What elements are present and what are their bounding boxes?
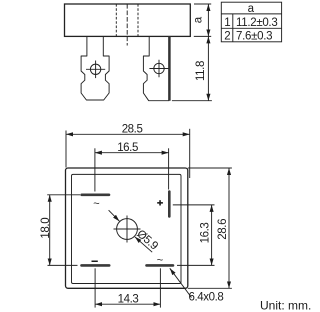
svg-text:14.3: 14.3 bbox=[118, 294, 139, 306]
terminal slot bottom-right bbox=[147, 264, 174, 267]
terminal lead 2 outline (partial, right side edge-on) bbox=[143, 36, 169, 100]
dimension 28.5 line bbox=[66, 133, 190, 135]
terminal edge-on thick line bbox=[168, 36, 171, 100]
svg-text:7.6±0.3: 7.6±0.3 bbox=[236, 31, 272, 43]
dimension 18.0 extensions bbox=[47, 194, 80, 196]
svg-text:16.5: 16.5 bbox=[117, 142, 138, 154]
svg-text:6.4x0.8: 6.4x0.8 bbox=[189, 292, 224, 304]
dimension a line bbox=[207, 4, 209, 36]
svg-text:2: 2 bbox=[224, 31, 230, 43]
terminal lead 1 outline bbox=[81, 36, 109, 100]
svg-text:16.3: 16.3 bbox=[200, 223, 212, 244]
lead 2 hole crosshair bbox=[149, 60, 168, 78]
mounting hole bbox=[114, 216, 141, 243]
dimension a (extension lines) bbox=[194, 3, 211, 5]
dimension 28.6 line bbox=[228, 168, 230, 288]
dimension 16.3 line bbox=[211, 205, 213, 266]
hole leader lower with arrow bbox=[135, 237, 152, 252]
dimension 16.5 extensions bbox=[94, 148, 96, 191]
hole leader upper bbox=[109, 210, 120, 221]
+ label bbox=[157, 200, 163, 205]
svg-text:11.2±0.3: 11.2±0.3 bbox=[236, 17, 277, 29]
svg-text:a: a bbox=[193, 16, 205, 23]
svg-text:a: a bbox=[248, 3, 255, 15]
dimension 11.8 extension bbox=[172, 100, 212, 102]
inner case edge bbox=[72, 174, 182, 283]
dimension 14.3 line bbox=[95, 303, 160, 305]
svg-text:Ø5.9: Ø5.9 bbox=[134, 228, 159, 252]
svg-text:28.5: 28.5 bbox=[122, 124, 143, 136]
center line bbox=[126, 4, 128, 46]
svg-text:~: ~ bbox=[93, 198, 99, 210]
dimension 14.3 extensions bbox=[94, 268, 96, 307]
svg-text:18.0: 18.0 bbox=[40, 218, 52, 239]
table frame bbox=[221, 2, 281, 42]
svg-text:Unit: mm.: Unit: mm. bbox=[260, 298, 311, 312]
body outline (molded case side view) bbox=[65, 4, 191, 36]
dimension 16.5 line bbox=[95, 152, 169, 154]
outer case outline bbox=[66, 168, 188, 288]
svg-text:1: 1 bbox=[224, 17, 230, 29]
dimension 11.8 line bbox=[207, 36, 209, 100]
hidden line right bbox=[137, 4, 139, 36]
dimension 16.3 extensions bbox=[173, 204, 215, 206]
svg-text:11.8: 11.8 bbox=[195, 61, 207, 81]
hidden line left bbox=[115, 4, 117, 36]
terminal slot top-left bbox=[82, 194, 109, 197]
lead 1 hole crosshair bbox=[86, 61, 105, 79]
terminal slot bottom-left bbox=[82, 264, 110, 267]
leader 6.4x0.8 bbox=[170, 268, 192, 297]
dimension 28.5 extensions bbox=[65, 131, 67, 168]
minus label bbox=[92, 261, 98, 263]
dimension 28.6 extensions bbox=[188, 167, 232, 169]
terminal slot plus (right, vertical) bbox=[168, 192, 171, 217]
svg-text:~: ~ bbox=[157, 255, 163, 267]
dimension 18.0 line bbox=[49, 195, 51, 266]
svg-text:28.6: 28.6 bbox=[217, 219, 229, 240]
